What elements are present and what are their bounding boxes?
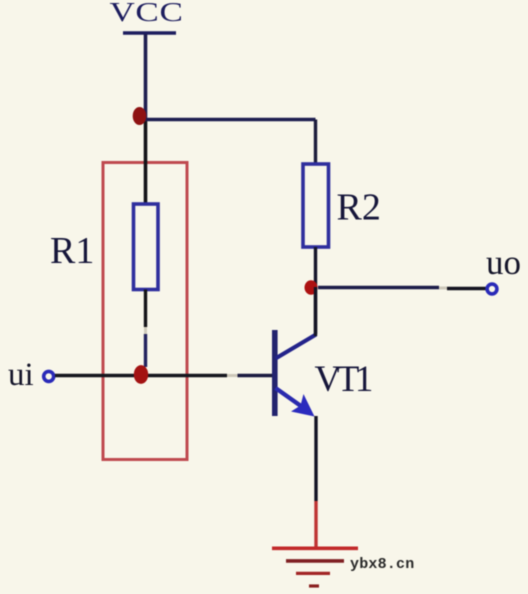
svg-text:ybx8.cn: ybx8.cn xyxy=(350,556,414,573)
svg-text:VT1: VT1 xyxy=(315,359,372,400)
svg-text:VCC: VCC xyxy=(109,0,183,27)
svg-text:R1: R1 xyxy=(50,230,94,272)
svg-text:uo: uo xyxy=(486,243,521,282)
svg-text:ui: ui xyxy=(8,357,34,393)
svg-text:R2: R2 xyxy=(337,187,381,229)
